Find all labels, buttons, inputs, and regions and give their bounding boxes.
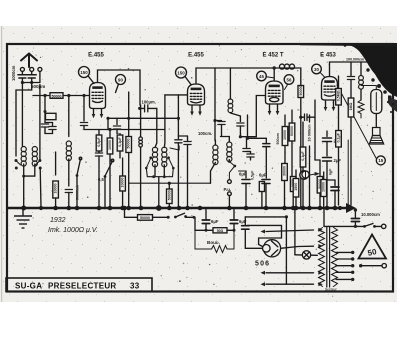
wire rail to screen resistor: [296, 68, 301, 86]
below-bus feed line with resistor box: [125, 208, 138, 217]
wire L2 to bus: [68, 159, 70, 186]
capacitor C4: [80, 123, 87, 126]
svg-text:10000: 10000: [108, 140, 112, 150]
svg-text:1000cm: 1000cm: [11, 65, 16, 81]
capacitor C5: [116, 118, 118, 124]
rectifier 506: [263, 240, 281, 257]
circled 45 V3: [257, 71, 267, 81]
triangle 50: [359, 235, 387, 259]
antenna terminal A3: [38, 67, 42, 71]
capacitor 2uF lower: [323, 158, 332, 162]
title box: [6, 278, 152, 292]
resistor 1000: [290, 177, 296, 192]
resistor 10000 above bus right: [323, 172, 325, 180]
svg-text:100μm.: 100μm.: [142, 100, 156, 105]
coil L1b: [32, 147, 37, 167]
coupling branch to capB: [247, 115, 249, 138]
resistor 0,1 right: [336, 131, 342, 148]
wire coils joined to bus: [23, 164, 25, 176]
resistor 50000 below AVC line: [168, 183, 170, 189]
AVC return line: [129, 182, 211, 184]
wire screen row: [108, 117, 178, 119]
svg-text:100cm.: 100cm.: [198, 131, 212, 136]
stage1 resistor 50000: [128, 92, 130, 137]
antenna symbol: [21, 54, 37, 68]
mains transformer: [319, 227, 338, 287]
heater arrow pair upper: [266, 272, 314, 274]
svg-text:E 452 T: E 452 T: [262, 53, 283, 59]
resistor column 292: [291, 110, 293, 123]
tube V2 E455: [188, 84, 205, 105]
svg-text:0,5μF: 0,5μF: [97, 137, 101, 147]
wire V2 plate to rail: [196, 68, 215, 84]
svg-text:50000: 50000: [290, 126, 294, 136]
wire grid line V2: [165, 94, 187, 96]
trimmer caps pair interstage: [246, 137, 248, 148]
svg-text:2μF: 2μF: [334, 158, 342, 163]
circled meter: [300, 171, 308, 179]
svg-text:6μF: 6μF: [211, 219, 219, 224]
svg-text:50000: 50000: [299, 86, 303, 96]
scan blotch top right: [348, 43, 397, 88]
scan noise specks: [24, 45, 377, 297]
resistor 50000 screen: [298, 86, 304, 98]
schematic frame: [7, 44, 393, 292]
wire coil L2 feed: [68, 96, 70, 137]
capacitor 6uF C below bus: [205, 210, 207, 220]
heater bus vertical: [286, 217, 313, 284]
svg-text:Bouυ.: Bouυ.: [207, 240, 220, 245]
coil L7: [360, 62, 362, 75]
resistor 0,1uF column 303: [302, 122, 304, 147]
zigzag resistor Z1: [358, 100, 364, 118]
capacitor 6uF A above bus: [245, 171, 247, 178]
capacitor under box: [95, 153, 102, 156]
svg-text:50Ω: 50Ω: [217, 229, 224, 233]
coil L1a: [21, 147, 26, 167]
resistor 50000 lower right: [319, 160, 321, 177]
capacitor C6: [177, 95, 179, 139]
svg-text:45: 45: [259, 74, 264, 79]
stage1 resistor 0,5uF box: [98, 130, 100, 136]
svg-text:10000: 10000: [283, 130, 287, 140]
circled 90 V1: [116, 75, 126, 85]
dial lamp: [302, 251, 310, 259]
svg-text:10000: 10000: [121, 178, 125, 188]
svg-text:Imk. 1000Ω μ.V.: Imk. 1000Ω μ.V.: [48, 227, 98, 234]
secondary winding zigzag: [332, 228, 338, 287]
wavechange switch left: [15, 159, 18, 162]
svg-text:150: 150: [80, 70, 88, 75]
HT rail top: [215, 67, 230, 69]
svg-text:506: 506: [255, 261, 270, 268]
coil L6 horizontal: [280, 64, 295, 69]
switch lever stage1: [105, 161, 113, 176]
resistor small right of PU: [259, 182, 264, 192]
tube V4 E453: [322, 77, 338, 101]
trimmer cap antenna 1: [21, 71, 23, 74]
circled 15: [376, 156, 385, 165]
svg-text:6μF: 6μF: [239, 172, 247, 177]
wavechange switch right: [39, 85, 41, 161]
stage1 cap 0,1uF: [119, 134, 121, 136]
V4 cathode lead arrows: [325, 100, 327, 108]
svg-text:1MΩ: 1MΩ: [349, 102, 353, 110]
svg-text:15: 15: [378, 158, 383, 163]
wire antenna down to coil L1a: [21, 83, 23, 147]
heater arrow pair lower: [261, 282, 266, 286]
switch lever L2: [77, 159, 81, 175]
svg-text:50000: 50000: [140, 216, 150, 220]
wire antenna node: [39, 71, 41, 82]
vertical to lamp: [294, 208, 296, 255]
svg-text:1500: 1500: [294, 183, 298, 191]
IF switch contacts: [149, 156, 152, 159]
antenna terminal A1: [20, 67, 24, 71]
svg-text:E.455: E.455: [88, 53, 104, 59]
wire column 164.9: [163, 95, 166, 148]
wire to switch column: [16, 83, 32, 157]
ground bus: [7, 207, 348, 210]
wire V1 cathode row: [83, 96, 85, 122]
capacitor C7: [184, 142, 191, 145]
svg-text:0,1μF: 0,1μF: [301, 151, 305, 161]
core lines: [326, 227, 328, 287]
mains feed from bus: [323, 208, 325, 226]
coil L2: [66, 141, 71, 161]
capacitor C10 series: [301, 116, 304, 118]
output line to terminal: [359, 264, 362, 267]
svg-text:500cm: 500cm: [276, 133, 280, 144]
wire HT column 215: [214, 68, 216, 141]
circled 150 V2: [176, 67, 187, 78]
capacitor 2uF upper: [326, 131, 328, 137]
resistor column 285: [284, 115, 286, 127]
bus end arrow: [346, 203, 356, 213]
wire loop to rectifier: [248, 225, 282, 247]
capacitor C3: [65, 190, 72, 193]
svg-text:0,5MΩ: 0,5MΩ: [337, 90, 341, 101]
dial lamp line: [295, 254, 317, 257]
resistor 0,5M right: [338, 76, 340, 89]
svg-text:0,1μF: 0,1μF: [118, 137, 122, 147]
resistor 1M right: [348, 98, 354, 117]
capacitor C1: [41, 124, 48, 127]
svg-text:E 453: E 453: [320, 53, 336, 59]
diagonal pointer to circled 15: [337, 85, 376, 158]
primary winding zigzag: [319, 228, 325, 287]
IF transformer left coil: [152, 147, 157, 167]
svg-text:56: 56: [287, 77, 292, 82]
series resistor box in line: [206, 229, 213, 231]
zigzag resistor bias: [195, 230, 234, 252]
wire column 315: [314, 100, 316, 160]
svg-text:50000: 50000: [167, 190, 171, 200]
tube V1 E455: [90, 83, 106, 109]
IF transformer right coil: [162, 147, 167, 167]
svg-text:Secteur: Secteur: [325, 288, 337, 292]
antenna terminal A2: [30, 67, 34, 71]
coil L5: [228, 99, 233, 113]
capacitor 6uF D below bus: [233, 210, 235, 220]
coil L4a: [213, 145, 218, 165]
wire V4 plate rail: [330, 62, 373, 77]
svg-text:100.000cm: 100.000cm: [346, 58, 364, 62]
coil L4b: [227, 142, 232, 162]
P.U. terminals: [228, 160, 231, 163]
svg-text:30: 30: [314, 67, 319, 72]
svg-text:500μm: 500μm: [31, 84, 45, 89]
potentiometer box rounded: [371, 90, 382, 114]
circled 150 V1: [79, 67, 90, 78]
capacitor E: [244, 217, 246, 225]
ground symbol: [14, 208, 32, 228]
speaker: [369, 114, 383, 145]
wire stage1 bottom joins: [98, 160, 100, 207]
wire grid branch down: [44, 96, 46, 123]
circled 30 V4: [312, 64, 322, 74]
heater line from bus: [245, 216, 286, 218]
svg-text:50000: 50000: [127, 139, 131, 149]
V2 cathode lead arrows: [191, 105, 193, 113]
svg-text:50000: 50000: [52, 94, 62, 98]
resistor 30000: [284, 162, 286, 165]
resistor 10000 lower: [122, 158, 124, 176]
circled lamp symbol: [302, 171, 309, 178]
stage1 resistor 10000: [109, 130, 111, 139]
transformer secondary taps: [336, 251, 354, 281]
bus junction dots: [21, 205, 342, 211]
small trimmer box: [46, 113, 57, 119]
svg-text:1932: 1932: [50, 217, 66, 224]
svg-text:0,1μF: 0,1μF: [337, 132, 341, 142]
svg-text:150: 150: [177, 70, 185, 75]
V3 cathode lead arrows: [269, 104, 271, 112]
wire AVC grid line: [33, 95, 90, 97]
wire V1 plate to HT: [98, 70, 141, 105]
resistor 50000 grid: [50, 93, 63, 99]
tube V3 E452T: [266, 81, 284, 104]
capacitor top right: [350, 62, 352, 76]
svg-text:10.000cm: 10.000cm: [361, 212, 380, 217]
svg-text:10000: 10000: [54, 184, 58, 194]
svg-text:0,5μF: 0,5μF: [251, 170, 255, 180]
capacitor C2: [52, 123, 54, 127]
resistor 1500 above bus: [295, 170, 297, 179]
page scan edge: [1, 26, 2, 302]
resistor 100000: [55, 152, 57, 175]
svg-text:E.455: E.455: [188, 53, 204, 59]
svg-text:10 000cm: 10 000cm: [308, 124, 312, 142]
IF bottom join: [146, 168, 173, 177]
capacitor C9: [237, 123, 244, 126]
heater single arrow top: [266, 230, 314, 232]
svg-text:30000: 30000: [283, 166, 287, 176]
capacitor C8: [215, 120, 222, 122]
switch below bus: [174, 216, 177, 219]
svg-text:6μF: 6μF: [259, 173, 267, 178]
wire to V3 grid: [240, 96, 265, 137]
V1 cathode lead arrows: [93, 109, 95, 116]
svg-text:10000: 10000: [322, 182, 326, 192]
wire 506 to heater arrow: [281, 246, 314, 248]
svg-text:90: 90: [118, 77, 123, 82]
svg-text:6μF: 6μF: [329, 168, 333, 175]
coil L3a small: [140, 105, 142, 137]
circled 56 V3: [284, 75, 294, 85]
mains switch line: [324, 225, 364, 227]
trimmer cap antenna 2: [31, 71, 33, 74]
label 10 000cm rotated: [309, 115, 311, 122]
wire V3 plate up: [273, 68, 275, 81]
